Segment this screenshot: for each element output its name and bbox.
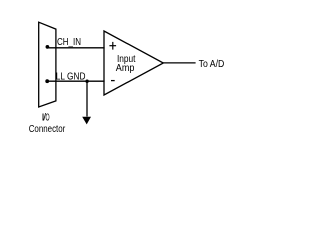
ground (down arrow) xyxy=(82,117,91,125)
svg-text:To A/D: To A/D xyxy=(199,59,225,70)
svg-text:Amp: Amp xyxy=(116,63,135,74)
node LL GND pin (junction dot) xyxy=(45,79,49,83)
node CH_IN pin (junction dot) xyxy=(46,45,50,49)
junction node on LL GND wire xyxy=(85,80,88,83)
svg-text:O: O xyxy=(46,113,50,124)
I/O connector J1 xyxy=(39,22,56,107)
wire LL GND from connector to op-amp - input xyxy=(47,80,104,82)
op-amp - input marker xyxy=(111,80,115,82)
wire op-amp output xyxy=(163,62,196,64)
op-amp U1 Input Amp xyxy=(104,31,163,95)
wire CH_IN from connector to op-amp + input xyxy=(47,47,104,49)
label I/O Connector xyxy=(29,113,66,135)
label Input Amp xyxy=(116,54,136,74)
svg-text:Connector: Connector xyxy=(29,124,66,135)
svg-text:LL GND: LL GND xyxy=(56,72,86,83)
op-amp + input marker xyxy=(109,42,116,50)
wire from junction down to ground xyxy=(86,81,88,116)
svg-text:CH_IN: CH_IN xyxy=(57,37,81,48)
